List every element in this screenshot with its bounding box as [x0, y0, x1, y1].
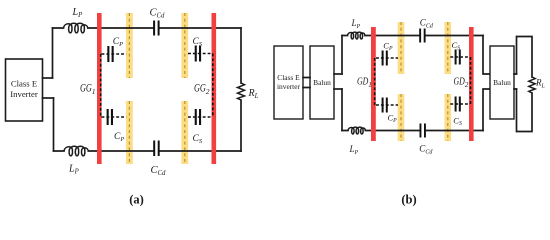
capacitor C_P (a, top-left branch) — [102, 53, 127, 55]
capacitor C_S (b, bottom-right branch) — [450, 103, 469, 105]
dashed line along red bar right (a) — [212, 54, 214, 118]
wire: left riser up (b) — [341, 36, 343, 75]
dashed centerline of yellow bar left (a) — [128, 13, 130, 164]
coupler plate bar yellow left (b) top segment — [398, 22, 405, 74]
dashed centerline of yellow bar left (b) — [400, 22, 402, 141]
wire: right balun output stubs (b) — [514, 74, 517, 89]
inductor L_P (b, top) — [348, 32, 365, 39]
capacitor C_Cd (a, bottom rail) — [153, 141, 155, 157]
Class E Inverter box (a) — [6, 59, 43, 121]
coupler plate bar yellow left (a) top segment — [126, 13, 133, 78]
wire: load loop (b) — [517, 37, 533, 132]
wire: left riser up (a) — [52, 28, 54, 78]
wire: bottom rail (a) — [54, 150, 242, 152]
coupler plate bar yellow right (a) top segment — [181, 13, 188, 78]
capacitor C_P (b, top-left branch) — [376, 57, 398, 59]
svg-text:GG: GG — [194, 83, 206, 95]
capacitor C_P (a, bottom-left branch) — [102, 116, 127, 118]
wire: stubs between inverter and balun (b) — [303, 78, 310, 88]
dashed centerline of yellow bar right (a) — [184, 13, 186, 164]
wire: top stub from inverter (a) — [43, 77, 53, 79]
svg-text:inverter: inverter — [277, 82, 301, 91]
svg-text:Class E: Class E — [11, 79, 37, 89]
Balun box (b, left) — [310, 46, 334, 119]
svg-text:Inverter: Inverter — [10, 89, 38, 99]
svg-text:1: 1 — [368, 80, 372, 89]
inductor L_P (b, bottom) — [348, 127, 365, 134]
capacitor C_S (a, bottom-right branch) — [188, 116, 212, 118]
wire: bottom rail (b) — [342, 130, 483, 132]
capacitor C_Cd (b, bottom rail) — [420, 124, 422, 138]
svg-text:Balun: Balun — [493, 78, 511, 87]
wire: right riser down to balun (b) — [483, 36, 490, 75]
capacitor C_Cd (a, top rail) — [153, 21, 155, 36]
inductor L_P (a, bottom) — [64, 146, 88, 156]
wire: left riser down (a) — [53, 98, 55, 151]
coupler plate bar yellow right (b) bottom segment — [445, 94, 452, 141]
svg-text:GD: GD — [357, 76, 368, 88]
coupler plate bar red right (a) — [212, 13, 217, 164]
capacitor C_P (b, bottom-left branch) — [376, 104, 398, 106]
capacitor C_S (a, top-right branch) — [188, 53, 212, 55]
resistor R_L (b) — [529, 77, 535, 93]
wire: top rail (a) — [53, 27, 242, 29]
coupler plate bar red left (b) — [371, 27, 376, 141]
svg-text:1: 1 — [92, 87, 96, 96]
svg-text:(a): (a) — [129, 193, 144, 207]
svg-text:GG: GG — [80, 83, 92, 95]
dashed line along red bar right (b) — [470, 57, 472, 104]
wire: balun bottom stub (b) — [334, 88, 342, 90]
wire: bottom stub from inverter (a) — [43, 97, 54, 99]
dashed line along red bar left (a) — [100, 54, 102, 117]
resistor R_L (a) — [238, 83, 245, 100]
capacitor C_S (b, top-right branch) — [450, 56, 469, 58]
dashed line along red bar left (b) — [374, 58, 376, 105]
wire: right riser up to balun (b) — [483, 89, 490, 131]
dashed centerline of yellow bar right (b) — [447, 22, 449, 141]
wire: right rail (a) — [240, 28, 242, 151]
inductor L_P (a, top) — [64, 23, 88, 33]
coupler plate bar yellow left (a) bottom segment — [126, 101, 133, 164]
wire: top rail (b) — [342, 35, 483, 37]
coupler plate bar red left (a) — [97, 13, 102, 164]
wire: balun top stub (b) — [334, 73, 342, 75]
coupler plate bar red right (b) — [469, 27, 474, 141]
coupler plate bar yellow right (b) top segment — [445, 22, 452, 74]
svg-text:2: 2 — [206, 87, 210, 96]
svg-text:2: 2 — [465, 80, 469, 89]
svg-text:GD: GD — [454, 76, 465, 88]
Class E inverter box (b) — [274, 46, 303, 119]
svg-text:Balun: Balun — [313, 78, 331, 87]
coupler plate bar yellow right (a) bottom segment — [181, 101, 188, 164]
wire: left riser down (b) — [341, 89, 343, 131]
coupler plate bar yellow left (b) bottom segment — [398, 94, 405, 141]
capacitor C_Cd (b, top rail) — [419, 29, 421, 43]
Balun box (b, right) — [490, 46, 514, 119]
svg-text:(b): (b) — [401, 193, 416, 207]
svg-text:Class E: Class E — [277, 73, 300, 82]
